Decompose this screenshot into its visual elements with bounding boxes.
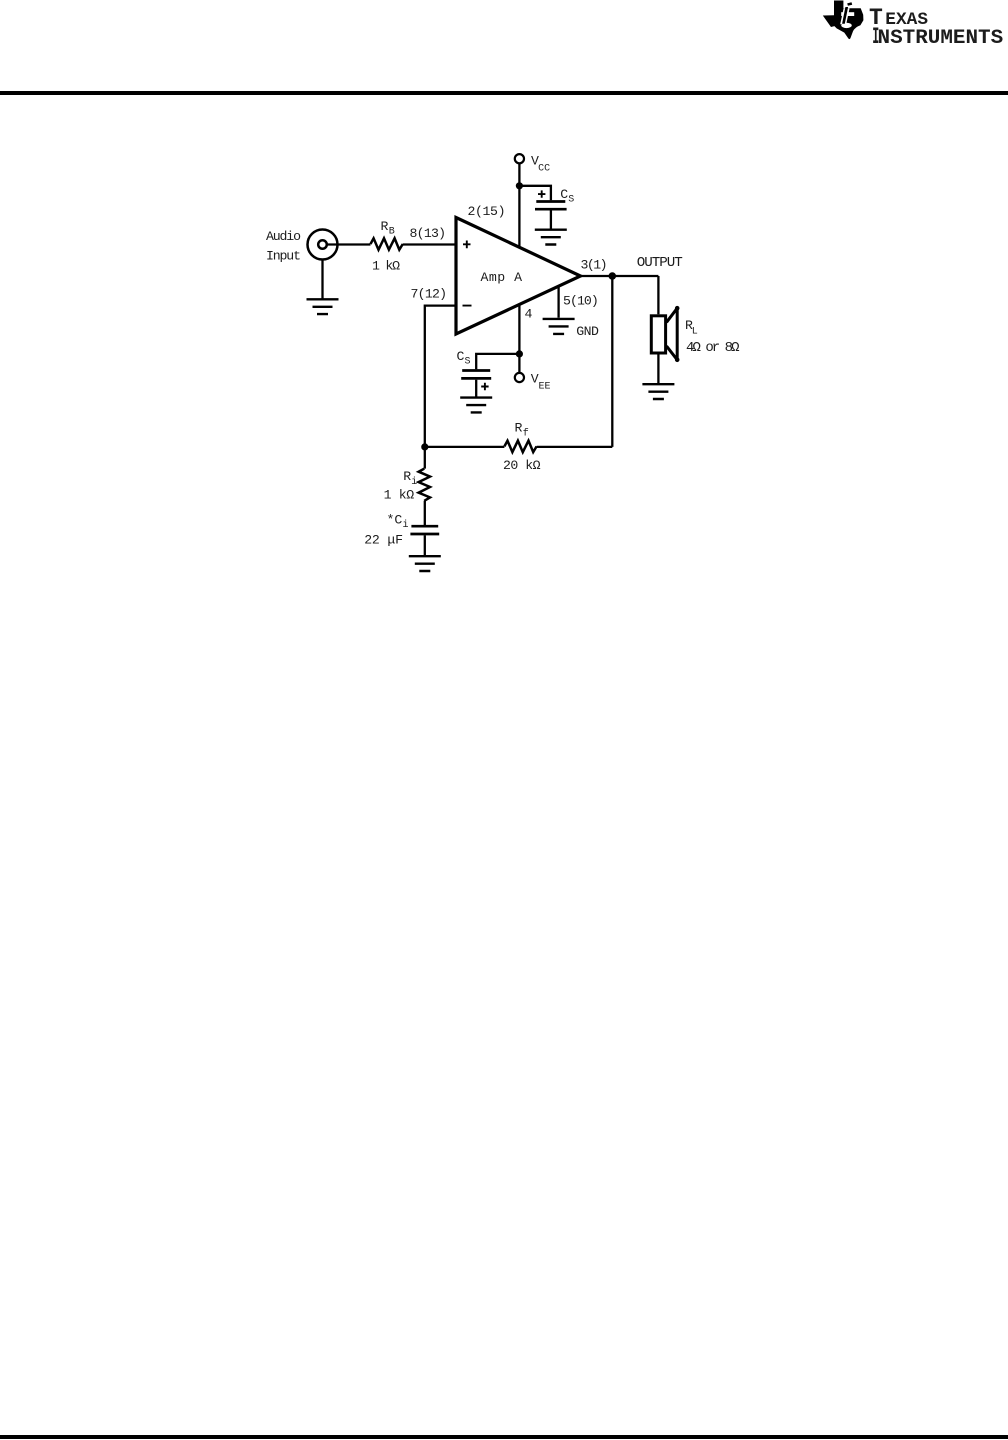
svg-text:20 kΩ: 20 kΩ: [503, 458, 541, 473]
svg-text:R: R: [515, 421, 523, 436]
svg-text:GND: GND: [576, 324, 599, 339]
svg-text:S: S: [568, 195, 574, 206]
svg-text:i: i: [403, 519, 409, 531]
svg-text:1 kΩ: 1 kΩ: [372, 259, 400, 274]
svg-text:R: R: [403, 469, 411, 484]
svg-text:C: C: [560, 187, 568, 202]
svg-text:C: C: [457, 349, 465, 364]
svg-text:7(12): 7(12): [411, 287, 448, 302]
svg-text:R: R: [381, 219, 389, 234]
svg-text:Input: Input: [266, 248, 301, 263]
svg-text:5(10): 5(10): [563, 293, 599, 308]
svg-text:Audio: Audio: [266, 229, 301, 244]
svg-text:8(13): 8(13): [410, 226, 447, 241]
svg-text:4: 4: [525, 307, 533, 322]
svg-text:22 μF: 22 μF: [364, 533, 403, 548]
svg-text:B: B: [389, 226, 395, 237]
svg-text:CC: CC: [538, 164, 550, 175]
svg-text:OUTPUT: OUTPUT: [637, 255, 683, 271]
svg-text:S: S: [465, 357, 471, 368]
svg-text:2(15): 2(15): [468, 204, 506, 219]
svg-text:f: f: [523, 427, 529, 439]
svg-text:i: i: [411, 476, 417, 488]
svg-text:1 kΩ: 1 kΩ: [384, 488, 415, 503]
svg-text:4Ω or 8Ω: 4Ω or 8Ω: [686, 340, 740, 356]
svg-text:*C: *C: [387, 513, 403, 528]
svg-text:Amp A: Amp A: [481, 270, 523, 285]
svg-text:3(1): 3(1): [581, 258, 608, 273]
svg-text:EE: EE: [539, 381, 551, 392]
svg-text:L: L: [692, 327, 698, 338]
